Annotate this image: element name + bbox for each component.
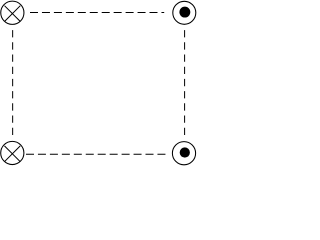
wire left (dashed) (12, 30, 14, 135)
node bottom-right: circle with dot (out of page) (172, 142, 195, 165)
wire top (dashed) (30, 12, 164, 14)
node top-right: circle with dot (out of page) (173, 1, 196, 24)
node bottom-left: circle with X (into page) (1, 141, 24, 164)
node top-left: circle with X (into page) (1, 1, 24, 24)
wire bottom (dashed) (26, 153, 166, 155)
wire right (dashed) (184, 30, 186, 135)
